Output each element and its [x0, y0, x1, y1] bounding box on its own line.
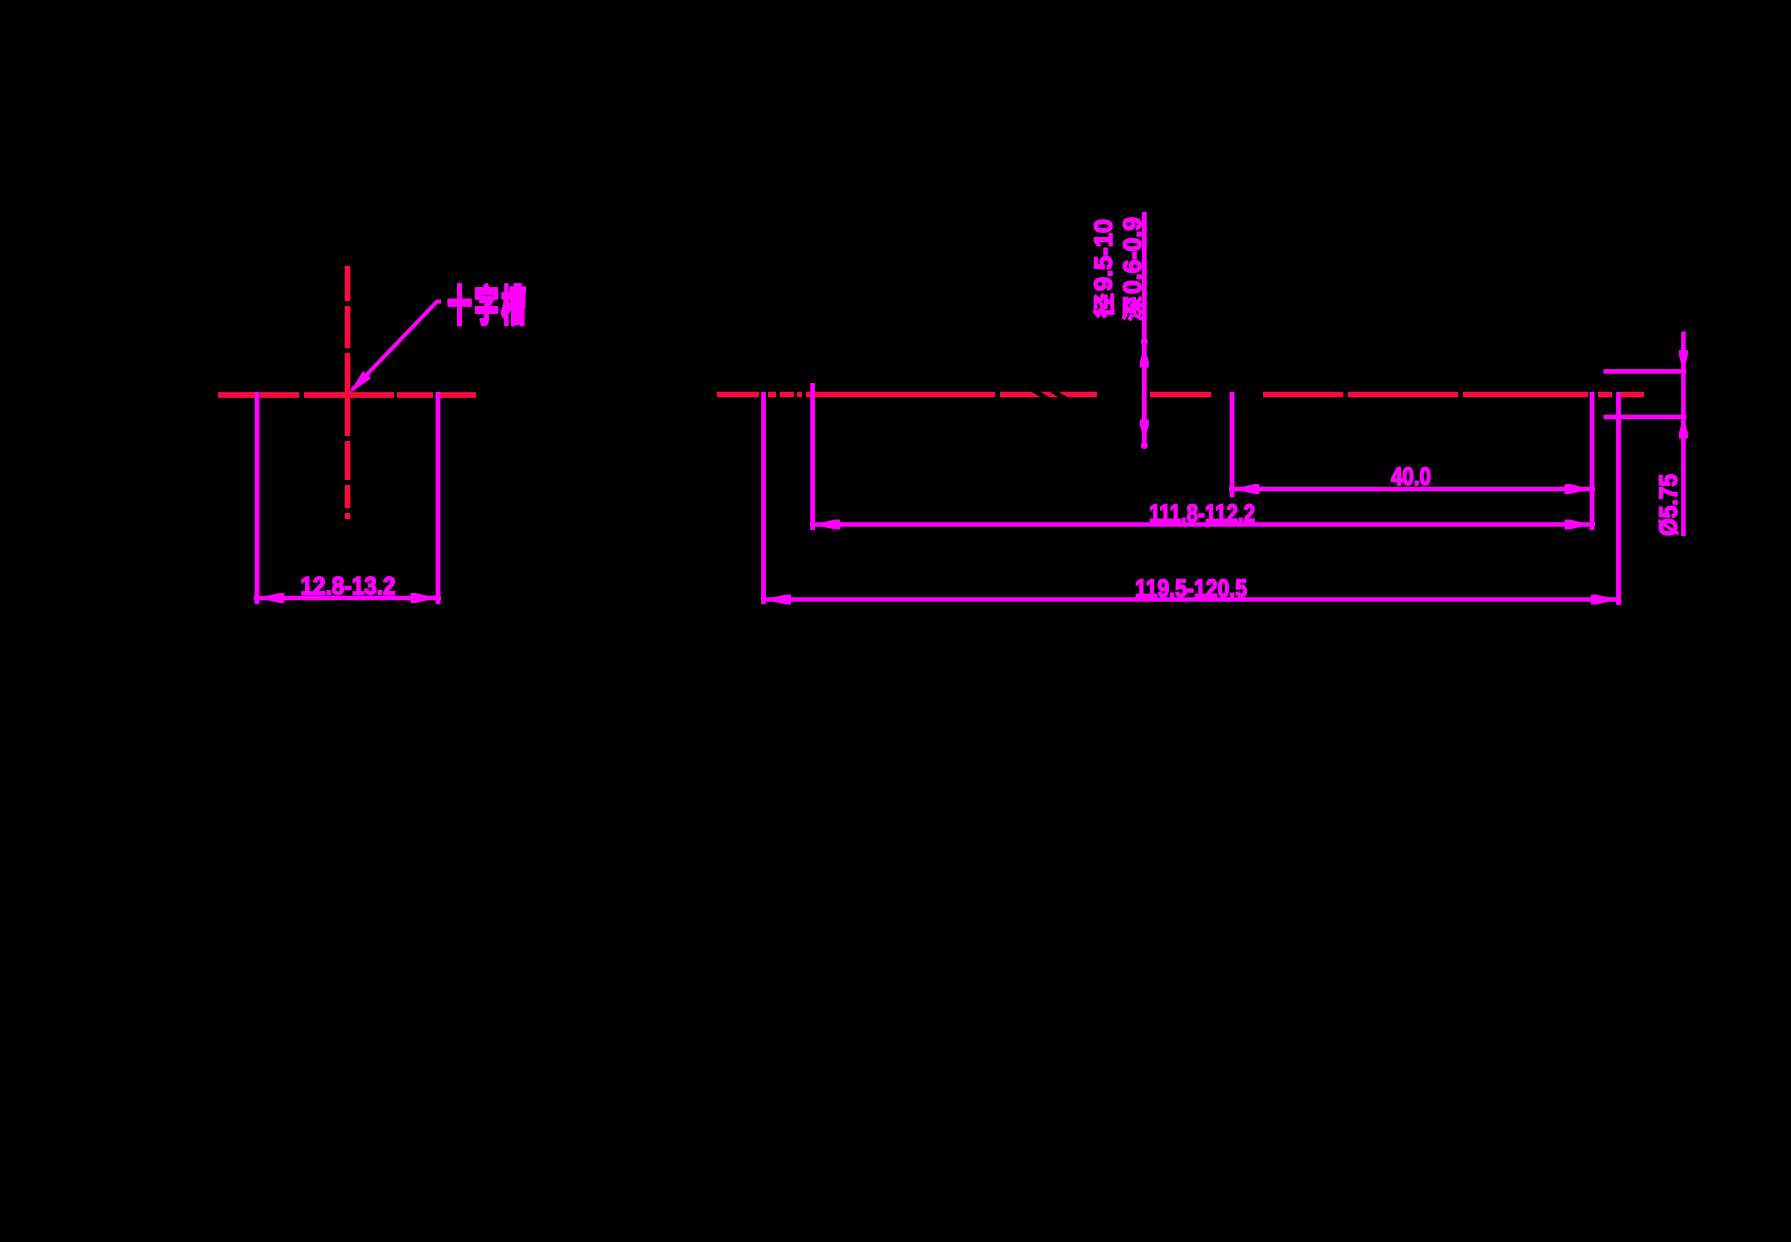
dimension line 119.5-120.5: [761, 597, 1621, 602]
centerline break mark (double diagonal): [1031, 391, 1050, 397]
left view extension line left: [255, 392, 260, 604]
hole annotation lower dot: [1141, 442, 1148, 449]
rotated text diameter 5.75: [1655, 474, 1683, 536]
small diameter dim upper extension line: [1604, 369, 1687, 374]
arrow right of 40.0: [1570, 484, 1592, 494]
hole annotation rotated text line 1: jing 9.5-10: [1090, 219, 1118, 318]
svg-text:40.0: 40.0: [1391, 463, 1431, 491]
arrow left of 119.5-120.5: [764, 595, 786, 605]
arrow left of 40.0: [1233, 484, 1255, 494]
right view extension line E (right, 40.0 and 111.8-112.2): [1590, 392, 1595, 530]
left view extension line right: [436, 392, 441, 604]
right view extension line C (left end of 40.0): [1230, 392, 1235, 497]
left view horizontal centerline: [218, 392, 476, 398]
right view extension line F (right, 119.5-120.5): [1616, 392, 1621, 605]
arrow right of 12.8-13.2: [416, 593, 438, 603]
arrow right of 111.8-112.2: [1570, 520, 1592, 530]
hole annotation up arrow: [1140, 346, 1150, 363]
arrow left of 111.8-112.2: [813, 520, 835, 530]
arrow right of 119.5-120.5: [1596, 595, 1618, 605]
dimension line 12.8-13.2: [254, 596, 441, 601]
svg-text:Ø5.75: Ø5.75: [1655, 474, 1683, 536]
left view vertical centerline: [345, 266, 351, 519]
small diameter up arrow: [1679, 417, 1689, 434]
dimension line 40.0: [1229, 487, 1595, 492]
svg-text:111.8-112.2: 111.8-112.2: [1149, 500, 1255, 528]
dimension line 111.8-112.2: [810, 522, 1595, 527]
right view horizontal centerline: [717, 392, 1644, 398]
small diameter dim vertical line: [1681, 332, 1686, 537]
hole annotation upper dot: [1141, 338, 1148, 345]
right view extension line B (left, 111.8-112.2): [810, 383, 815, 530]
svg-text:9.5-10: 9.5-10: [1090, 219, 1118, 291]
small diameter down arrow: [1679, 354, 1689, 371]
label text cross-slot (shi zi cao): [448, 284, 471, 324]
svg-text:0.6-0.9: 0.6-0.9: [1119, 217, 1147, 294]
arrow left of 12.8-13.2: [258, 593, 280, 603]
small diameter dim lower extension line: [1604, 415, 1687, 420]
hole annotation vertical line: [1142, 212, 1147, 445]
leader line to cross slot: [352, 302, 441, 391]
svg-text:119.5-120.5: 119.5-120.5: [1135, 575, 1247, 603]
hole annotation down arrow: [1140, 424, 1150, 441]
svg-text:12.8-13.2: 12.8-13.2: [301, 573, 396, 601]
right view extension line A (left, 119.5-120.5): [761, 392, 766, 604]
leader arrowhead: [349, 371, 371, 394]
hole annotation rotated text line 2: shen 0.6-0.9: [1119, 217, 1147, 320]
